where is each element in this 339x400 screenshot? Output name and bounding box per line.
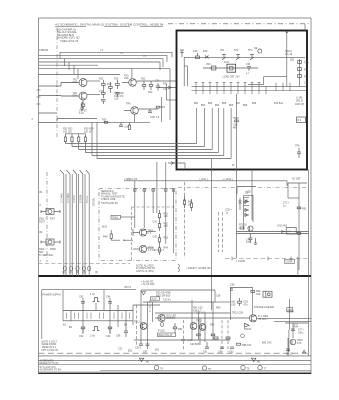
pin labels row bbox=[194, 102, 284, 107]
svg-text:C16: C16 bbox=[114, 98, 119, 101]
wire Q101 collector bbox=[87, 80, 100, 82]
svg-text:TP1: TP1 bbox=[220, 49, 225, 52]
bus stub pins bbox=[196, 83, 290, 95]
LT line left extension bbox=[124, 180, 195, 182]
svg-text:TWITH+DIG 05: TWITH+DIG 05 bbox=[101, 202, 118, 205]
svg-text:DSP 5V: DSP 5V bbox=[167, 317, 176, 320]
resistor RM1 bbox=[240, 227, 244, 229]
connector pin oval 1 bbox=[63, 266, 66, 271]
transistor Q202 bbox=[236, 55, 240, 60]
right ps column bbox=[285, 276, 309, 356]
bus riser right to board pins bbox=[197, 108, 231, 159]
svg-text:B09: B09 bbox=[252, 102, 257, 105]
resistor R212 bbox=[298, 75, 302, 78]
board left drop wire bbox=[184, 57, 187, 86]
junction dot 2 bbox=[56, 95, 57, 96]
svg-text:B42 C43: B42 C43 bbox=[262, 342, 272, 345]
svg-text:B01: B01 bbox=[194, 102, 199, 105]
switch S1 box bbox=[41, 209, 60, 215]
svg-text:B05: B05 bbox=[222, 102, 227, 105]
resistor RP8 bbox=[211, 334, 215, 336]
connector label mid2 bbox=[285, 259, 295, 263]
svg-text:C82: C82 bbox=[304, 81, 309, 84]
svg-text:R63: R63 bbox=[164, 237, 169, 240]
svg-text:( LT01 ): ( LT01 ) bbox=[200, 178, 208, 181]
mid dashed connector line right bbox=[225, 258, 309, 260]
svg-text:+ 5L C4 R10: + 5L C4 R10 bbox=[141, 283, 155, 286]
diode DM2 bbox=[245, 208, 248, 211]
svg-text:(1): (1) bbox=[62, 271, 65, 274]
capacitor CQ1 bbox=[230, 289, 233, 290]
svg-text:D91: D91 bbox=[290, 58, 295, 61]
transistor QP3 bbox=[249, 315, 256, 322]
capacitor C206 bbox=[247, 66, 251, 71]
svg-text:C42: C42 bbox=[153, 235, 158, 238]
connector circle T2 bbox=[202, 366, 206, 370]
svg-text:TR10: TR10 bbox=[233, 117, 240, 120]
svg-text:C/ICM: C/ICM bbox=[287, 311, 294, 314]
svg-text:B03: B03 bbox=[208, 102, 213, 105]
pullup resistor R24 bbox=[84, 134, 86, 153]
svg-text:B CLK: B CLK bbox=[86, 196, 89, 203]
svg-text:B DATA: B DATA bbox=[80, 194, 83, 203]
small parts mid2 bbox=[239, 198, 242, 210]
component X120 bbox=[128, 122, 130, 129]
resistor RQ1 bbox=[251, 291, 255, 293]
diode D201 bbox=[196, 53, 200, 59]
svg-text:C CHAIN: C CHAIN bbox=[67, 193, 70, 203]
relay box K1 bbox=[263, 291, 272, 297]
resistor R118 on wire bbox=[104, 121, 108, 123]
bottom solid line 2 bbox=[39, 359, 312, 361]
transistor Q102 bbox=[61, 92, 87, 100]
svg-text:C82: C82 bbox=[79, 296, 84, 299]
tick bbox=[232, 257, 291, 261]
svg-text:C24 B25: C24 B25 bbox=[190, 343, 200, 346]
svg-text:1 Vp: 1 Vp bbox=[90, 293, 96, 296]
svg-text:P LED: P LED bbox=[158, 330, 165, 333]
ground Q102 bbox=[80, 102, 84, 111]
arrowhead wires bbox=[281, 231, 284, 233]
capacitor C119 bbox=[119, 122, 123, 126]
svg-text:+ ( LT02 ): + ( LT02 ) bbox=[223, 178, 233, 181]
transistor QM1 bbox=[248, 226, 253, 231]
svg-text:RST: RST bbox=[50, 218, 55, 221]
svg-text:OSC 4.5: OSC 4.5 bbox=[150, 116, 160, 119]
svg-text:1 CONN: 1 CONN bbox=[236, 260, 245, 263]
resistor RP1 bbox=[81, 327, 85, 333]
svg-text:100u: 100u bbox=[298, 331, 304, 334]
dash-dot vertical mid-left bbox=[46, 172, 48, 262]
svg-text:C59: C59 bbox=[230, 283, 235, 286]
svg-text:D18: D18 bbox=[193, 50, 198, 53]
pulse waveform sym top bbox=[93, 298, 100, 302]
svg-text:KTC: KTC bbox=[297, 342, 302, 345]
resistor R111 bbox=[149, 81, 153, 90]
ribbon wire pair 2 bbox=[67, 170, 73, 276]
svg-text:A7B: A7B bbox=[246, 191, 251, 194]
resistor R104 bbox=[102, 89, 106, 98]
capacitor CM1 bbox=[249, 234, 253, 243]
pullup resistor R23 bbox=[78, 134, 80, 150]
top wire short drops bbox=[60, 52, 172, 120]
arrow mark at board entry bbox=[171, 162, 174, 165]
boxed label TM01 bbox=[111, 215, 121, 219]
svg-text:PWR: PWR bbox=[50, 248, 56, 251]
svg-text:AC DET: AC DET bbox=[292, 178, 301, 181]
junction dot service bbox=[123, 240, 124, 241]
indicator circle P1 bbox=[258, 49, 262, 53]
service verticals bbox=[135, 162, 174, 253]
svg-text:R81: R81 bbox=[304, 68, 309, 71]
svg-text:CHROM: CHROM bbox=[39, 49, 48, 52]
svg-text:TR13: TR13 bbox=[196, 320, 203, 323]
svg-text:R12: R12 bbox=[99, 77, 104, 80]
wire from TM01 bbox=[121, 216, 135, 218]
connector pin oval 5 bbox=[88, 266, 91, 271]
svg-text:470: 470 bbox=[246, 241, 251, 244]
pin top tick marks bbox=[195, 82, 261, 84]
svg-text:B08: B08 bbox=[243, 104, 248, 107]
svg-text:C55 0.01: C55 0.01 bbox=[196, 312, 206, 315]
svg-text:NE: NE bbox=[254, 47, 258, 50]
svg-text:C18: C18 bbox=[73, 81, 78, 84]
svg-text:C21: C21 bbox=[118, 348, 123, 351]
gate G1 bbox=[133, 229, 147, 236]
svg-text:10K: 10K bbox=[164, 225, 169, 228]
capacitor C105 bbox=[101, 100, 106, 105]
connector pin oval 2 bbox=[70, 266, 73, 271]
svg-text:B10 B11: B10 B11 bbox=[274, 102, 284, 105]
left border entry stubs bbox=[39, 86, 62, 123]
svg-text:0.01 470: 0.01 470 bbox=[114, 95, 124, 98]
svg-text:B MODE LINE B41: B MODE LINE B41 bbox=[254, 306, 275, 309]
transistor Q210 bbox=[298, 61, 302, 64]
capacitor CPR2 bbox=[286, 349, 290, 351]
svg-text:TR9: TR9 bbox=[304, 62, 309, 65]
svg-text:A20: A20 bbox=[256, 293, 261, 296]
resistor RR2 bbox=[297, 233, 301, 235]
pullup resistor R21 bbox=[64, 134, 66, 144]
wire stubs power bbox=[63, 298, 133, 334]
board rail 2 bbox=[203, 67, 258, 69]
top-left input wires bbox=[39, 52, 173, 74]
transistor QPR1 bbox=[290, 339, 296, 345]
mid-right rail bbox=[237, 232, 309, 234]
svg-text:R82: R82 bbox=[304, 75, 309, 78]
svg-text:10K: 10K bbox=[164, 215, 169, 218]
resistor R113 bbox=[156, 106, 165, 108]
wire right col low bbox=[297, 257, 299, 276]
svg-text:B02: B02 bbox=[201, 104, 206, 107]
board bus line A bbox=[192, 85, 307, 87]
capacitor C200 entry bbox=[180, 50, 184, 57]
svg-text:1K: 1K bbox=[188, 203, 191, 206]
transistor QP2 bbox=[158, 314, 165, 321]
svg-text:TM01: TM01 bbox=[112, 216, 119, 219]
svg-text:C41: C41 bbox=[153, 220, 158, 223]
stub top right bbox=[304, 24, 306, 31]
svg-text:LOAD CRT +5V: LOAD CRT +5V bbox=[223, 75, 240, 78]
svg-text:TP8: TP8 bbox=[295, 144, 300, 147]
page frame bbox=[39, 18, 312, 374]
power left loop wire bbox=[42, 290, 136, 339]
svg-text:4.19: 4.19 bbox=[79, 112, 84, 115]
wire Q103 top feed bbox=[132, 69, 177, 123]
boundary dash-dot line top bbox=[168, 23, 309, 25]
capacitor CP1 bbox=[81, 302, 85, 304]
svg-text:R22: R22 bbox=[148, 91, 153, 94]
capacitor C108 bbox=[115, 93, 119, 98]
diode DM3 bbox=[245, 213, 248, 216]
svg-text:R60: R60 bbox=[216, 307, 221, 310]
svg-text:POWER SUPPLY: POWER SUPPLY bbox=[43, 294, 62, 297]
input triangle sym bbox=[142, 292, 146, 295]
transistor QP0 bbox=[140, 323, 147, 330]
crystal X1 bbox=[81, 100, 85, 109]
transistor Q201 bbox=[222, 55, 226, 60]
svg-text:+ SAFETY NOTES: BK: + SAFETY NOTES: BK bbox=[186, 267, 211, 270]
bottom solid line 3 bbox=[39, 364, 312, 366]
bottom dashed separator bbox=[39, 352, 312, 354]
wire into gates bbox=[111, 232, 156, 249]
boxed label small bbox=[287, 308, 293, 312]
svg-text:CHECK LINE: CHECK LINE bbox=[101, 198, 116, 201]
svg-text:C 2: C 2 bbox=[148, 232, 152, 235]
svg-text:C32: C32 bbox=[163, 88, 168, 91]
circle marker ps bbox=[241, 334, 245, 338]
arrow into board mid bbox=[158, 87, 177, 89]
svg-text:(2): (2) bbox=[69, 271, 72, 274]
resistor RL2 bbox=[190, 199, 192, 211]
svg-text:B31: B31 bbox=[155, 348, 160, 351]
svg-text:REG CHL AT: REG CHL AT bbox=[159, 334, 173, 337]
svg-text:SERIAL: SERIAL bbox=[92, 197, 95, 206]
resistor R211 bbox=[298, 68, 302, 71]
small marker triangle bbox=[303, 350, 306, 353]
svg-text:IC01: IC01 bbox=[224, 61, 230, 64]
ribbon labels (vertical) bbox=[61, 193, 96, 206]
capacitor CP2 bbox=[108, 302, 112, 304]
ground triangle W2 bbox=[252, 358, 256, 361]
bottom border double line bbox=[100, 370, 311, 372]
ps mid circuit wires bbox=[133, 290, 230, 345]
junction dot 1 bbox=[56, 85, 57, 86]
transistor QP8 bbox=[199, 324, 206, 331]
junction dot 3 bbox=[56, 119, 57, 120]
svg-text:R35: R35 bbox=[102, 118, 107, 121]
svg-text:B10 S: B10 S bbox=[125, 286, 132, 289]
svg-text:2SA: 2SA bbox=[124, 77, 129, 80]
svg-text:R88 100: R88 100 bbox=[242, 344, 252, 347]
mid link line LT bbox=[195, 180, 287, 182]
svg-text:1000 (P): 1000 (P) bbox=[295, 103, 304, 106]
resistor RL1 bbox=[183, 196, 185, 208]
resistor hang TR10 bbox=[235, 120, 239, 122]
svg-text:MV2: MV2 bbox=[102, 225, 108, 228]
terminal strip ticks bbox=[67, 313, 130, 319]
svg-text:B06: B06 bbox=[229, 104, 234, 107]
svg-text:C51: C51 bbox=[246, 63, 251, 66]
svg-text:R15: R15 bbox=[114, 77, 119, 80]
mid-left horizontal wire bbox=[57, 121, 150, 123]
power rail top bbox=[63, 310, 133, 312]
resistor R48 bbox=[110, 230, 112, 240]
long vertical net to lower section bbox=[212, 94, 253, 310]
gate G2 bbox=[133, 245, 147, 252]
svg-text:D GND: D GND bbox=[73, 195, 76, 203]
pad squares on box top bbox=[134, 189, 175, 191]
svg-text:B22: B22 bbox=[128, 350, 133, 353]
svg-text:R55 / 3.3K: R55 / 3.3K bbox=[181, 339, 193, 342]
main IC board box U1 bbox=[177, 31, 308, 170]
svg-text:T@EV+SYNL.05: T@EV+SYNL.05 bbox=[60, 40, 79, 43]
transistor Q103 bbox=[122, 79, 136, 87]
svg-text:+TM012.1 B: +TM012.1 B bbox=[124, 178, 137, 181]
svg-text:5.6V: 5.6V bbox=[152, 298, 157, 301]
IC U202 bbox=[227, 64, 236, 72]
power rail bottom bbox=[63, 320, 133, 322]
svg-text:(3): (3) bbox=[76, 271, 79, 274]
svg-text:R58: R58 bbox=[210, 324, 215, 327]
mid-right ladder wires bbox=[244, 195, 253, 230]
resistor R110 bbox=[142, 81, 146, 90]
svg-text:(4): (4) bbox=[83, 271, 86, 274]
resistor RA1 bbox=[158, 210, 160, 221]
section divider mid (thick) bbox=[39, 275, 312, 277]
svg-text:TB 101.7: TB 101.7 bbox=[258, 318, 268, 321]
svg-text:B8 C8: B8 C8 bbox=[286, 352, 293, 355]
svg-text:TEST: TEST bbox=[39, 220, 46, 223]
resistor R103 bbox=[102, 80, 106, 89]
svg-text:ALTERNATE TO 5%: ALTERNATE TO 5% bbox=[40, 368, 63, 371]
harness bus lines bbox=[65, 144, 231, 159]
resistor R106 bbox=[109, 82, 113, 93]
svg-text:R71 1K: R71 1K bbox=[239, 224, 247, 227]
connector CN7 bbox=[286, 228, 296, 235]
node tick marks on left border bbox=[37, 90, 41, 104]
connector circle T4 bbox=[258, 365, 262, 369]
ribbon wire pair 1 bbox=[60, 170, 66, 276]
svg-text:C CHAIN: C CHAIN bbox=[61, 193, 64, 203]
ground triangle W1 bbox=[139, 358, 143, 361]
transistor Q203 bbox=[250, 55, 254, 60]
capacitor C115 bbox=[148, 109, 152, 113]
connector row dashed line bbox=[39, 263, 131, 265]
svg-text:R91: R91 bbox=[302, 207, 307, 210]
svg-text:1.5 OB C 1 2 3: 1.5 OB C 1 2 3 bbox=[148, 249, 164, 252]
ps second stage wires bbox=[192, 288, 311, 353]
fork at top bbox=[285, 31, 290, 34]
capacitor CP6 bbox=[139, 340, 143, 346]
svg-text:2 Vp: 2 Vp bbox=[90, 334, 96, 337]
title underline marks bbox=[55, 26, 163, 28]
connector circle T1 bbox=[154, 365, 158, 369]
svg-text:C10 41: C10 41 bbox=[163, 298, 171, 301]
ribbon wire pair 3 bbox=[73, 170, 79, 276]
svg-text:C60: C60 bbox=[231, 303, 236, 306]
right column wires mid bbox=[288, 170, 309, 277]
svg-text:TR12 C58: TR12 C58 bbox=[232, 312, 244, 315]
boxed label 5.6V bbox=[151, 297, 160, 300]
capacitor CR1 bbox=[297, 148, 301, 158]
resistor RQ3 bbox=[237, 343, 241, 345]
pullup rail bbox=[65, 133, 85, 135]
dash-dot segment mid bbox=[178, 187, 235, 189]
wire Q104 output bbox=[135, 109, 159, 122]
svg-text:R48: R48 bbox=[103, 235, 108, 238]
svg-text:B04: B04 bbox=[215, 104, 220, 107]
ribbon wire pair 4 bbox=[80, 170, 86, 276]
wires entering left border lower bbox=[57, 118, 97, 120]
board rail top bbox=[184, 56, 305, 58]
svg-text:C94: C94 bbox=[106, 335, 111, 338]
bus feed risers bbox=[92, 122, 97, 158]
dashed verticals ps bbox=[137, 300, 229, 352]
svg-text:TR4: TR4 bbox=[126, 102, 131, 105]
svg-text:R21: R21 bbox=[141, 77, 146, 80]
connector pin oval 4 bbox=[82, 266, 85, 271]
svg-text:TP2: TP2 bbox=[234, 49, 239, 52]
svg-text:4-2 SCHEMATIC : DIGITAL MAIN (: 4-2 SCHEMATIC : DIGITAL MAIN (1) SYSTEM … bbox=[55, 23, 164, 27]
sub-box corner bbox=[237, 187, 256, 195]
svg-text:C14: C14 bbox=[99, 90, 104, 93]
diode DM1 bbox=[245, 200, 248, 203]
svg-text:R31: R31 bbox=[163, 82, 168, 85]
resistor RP7 bbox=[197, 334, 201, 336]
svg-text:TP3: TP3 bbox=[248, 49, 253, 52]
resistor RR1 bbox=[297, 207, 301, 209]
capacitor CP5 bbox=[146, 344, 150, 349]
svg-text:100 100: 100 100 bbox=[63, 130, 72, 133]
ribbon wire 5 bbox=[86, 170, 89, 276]
pullup resistor R22 bbox=[71, 134, 73, 147]
svg-text:R64: R64 bbox=[164, 247, 169, 250]
shield box dashed (service block) bbox=[99, 189, 176, 261]
brace bbox=[178, 264, 180, 272]
mid dashed verticals bbox=[185, 182, 223, 258]
resistor RA4 bbox=[158, 245, 160, 255]
svg-text:TL SERVICE: TL SERVICE bbox=[39, 254, 53, 257]
svg-text:C24: C24 bbox=[155, 79, 160, 82]
capacitor CPR1 bbox=[291, 329, 295, 331]
resistor R107 bbox=[116, 80, 120, 89]
opamp buffer triangle bbox=[244, 323, 249, 327]
svg-text:D19: D19 bbox=[203, 50, 208, 53]
svg-text:B+MORE (O/C) NO: B+MORE (O/C) NO bbox=[57, 35, 80, 39]
bottom solid line 1 bbox=[39, 355, 312, 357]
transistor Q101 bbox=[61, 79, 87, 87]
wire Q102 collector bbox=[87, 94, 100, 96]
svg-text:R52: R52 bbox=[178, 328, 183, 331]
resistor RA3 bbox=[158, 234, 160, 245]
connector pin oval 3 bbox=[76, 266, 79, 271]
switch S2 box bbox=[41, 239, 60, 245]
inductor L205 bbox=[209, 66, 216, 70]
svg-text:47u: 47u bbox=[244, 303, 249, 306]
board right column wires bbox=[248, 33, 300, 86]
transistor Q104 bbox=[124, 107, 138, 115]
svg-text:D18: D18 bbox=[73, 95, 78, 98]
svg-text:C58: C58 bbox=[216, 295, 221, 298]
svg-text:C84: C84 bbox=[106, 296, 111, 299]
svg-text:C36: C36 bbox=[125, 126, 130, 129]
svg-text:CN2 AN3: CN2 AN3 bbox=[277, 225, 288, 228]
resistor RA2 bbox=[158, 221, 160, 231]
svg-text:100 1K: 100 1K bbox=[84, 130, 92, 133]
circle marker small bbox=[160, 323, 164, 327]
svg-text:TR11: TR11 bbox=[134, 321, 140, 324]
